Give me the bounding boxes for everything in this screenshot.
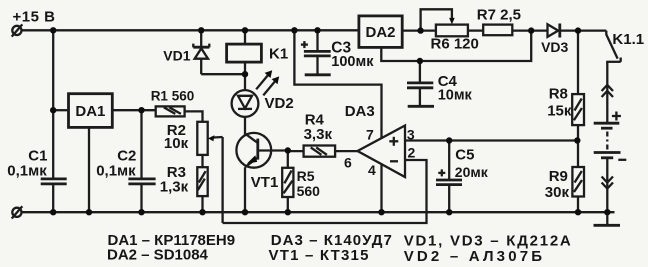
resistor R5 — [282, 151, 320, 213]
node ground terminal — [12, 206, 23, 218]
parts list text — [107, 232, 573, 265]
op-amp DA3 — [344, 103, 416, 178]
svg-text:30к: 30к — [545, 184, 570, 201]
wire DA3 pin2 feedback — [223, 160, 427, 223]
svg-text:DA1: DA1 — [75, 103, 105, 120]
svg-text:560: 560 — [297, 183, 321, 199]
resistor R4 — [288, 112, 358, 157]
diode VD1 — [163, 30, 209, 74]
svg-text:7: 7 — [366, 126, 374, 142]
capacitor C3 — [301, 30, 374, 75]
switch K1.1 — [606, 31, 644, 62]
wire left vertical with C1 — [52, 30, 54, 212]
svg-text:VT1 – КТ315: VT1 – КТ315 — [269, 247, 370, 264]
connector plug up — [602, 85, 613, 97]
svg-text:R6 120: R6 120 — [431, 36, 479, 53]
svg-text:VT1: VT1 — [251, 174, 279, 191]
wire R2 to R3 — [201, 155, 203, 167]
potentiometer R2 — [164, 122, 208, 155]
regulator DA2 — [359, 16, 402, 48]
wire R2 wiper to feedback — [208, 135, 223, 223]
wire DA1 ground pin — [88, 127, 90, 212]
svg-text:DA2 – SD1084: DA2 – SD1084 — [107, 247, 209, 264]
svg-text:4: 4 — [368, 162, 376, 178]
svg-text:VD1: VD1 — [163, 48, 190, 64]
svg-text:1,3к: 1,3к — [160, 179, 189, 196]
potentiometer R6 — [421, 9, 479, 52]
svg-text:R9: R9 — [549, 168, 568, 185]
svg-text:0,1мк: 0,1мк — [96, 163, 136, 180]
wire bottom rail — [22, 211, 615, 213]
wire DA3 pin4 to rail — [380, 164, 382, 212]
svg-text:20мк: 20мк — [455, 164, 489, 180]
wire DA3 V+ pin7 — [294, 30, 381, 138]
capacitor C4 — [407, 61, 473, 106]
wire VD1 to K1 junction — [201, 73, 245, 75]
svg-text:VD3: VD3 — [541, 39, 568, 55]
wire DA3 pin3 line — [405, 139, 577, 141]
ground chassis — [594, 212, 621, 225]
svg-text:K1: K1 — [269, 45, 288, 62]
wire battery to plug down — [606, 158, 608, 212]
wire DA1 right pin — [112, 109, 155, 111]
svg-text:VD2: VD2 — [265, 95, 294, 112]
svg-text:K1.1: K1.1 — [612, 31, 644, 48]
wire DA2 adj line — [381, 31, 531, 61]
wire C2 branch — [140, 110, 142, 212]
svg-text:10к: 10к — [164, 135, 189, 152]
node +15V terminal — [12, 8, 56, 36]
svg-text:VD1, VD3 – КД212А: VD1, VD3 – КД212А — [404, 232, 573, 249]
capacitor C1 — [7, 148, 66, 184]
svg-text:0,1мк: 0,1мк — [7, 163, 47, 180]
wire switch to battery — [606, 62, 608, 123]
wire VT1 emitter to rail — [244, 167, 246, 212]
regulator DA1 — [69, 94, 113, 128]
battery GB — [594, 112, 627, 160]
wire DA1 left pin — [53, 109, 68, 111]
resistor R3 — [160, 164, 208, 196]
svg-text:R1 560: R1 560 — [151, 88, 195, 103]
svg-text:R7 2,5: R7 2,5 — [477, 6, 521, 23]
svg-text:DA3: DA3 — [345, 103, 375, 120]
svg-text:100мк: 100мк — [331, 54, 374, 70]
resistor R7 — [477, 6, 521, 35]
connector plug down — [602, 177, 613, 189]
resistor R8 — [547, 31, 584, 141]
wire top rail — [22, 29, 607, 32]
capacitor C2 — [96, 148, 155, 184]
svg-text:15к: 15к — [547, 103, 572, 120]
capacitor C5 — [436, 141, 489, 213]
resistor R1 — [151, 88, 195, 116]
wire VD2 to VT1 collector — [244, 117, 246, 135]
svg-text:C5: C5 — [455, 146, 474, 163]
resistor R9 — [545, 141, 584, 213]
svg-text:10мк: 10мк — [438, 88, 473, 104]
svg-text:+15 В: +15 В — [13, 8, 56, 25]
svg-text:DA2: DA2 — [365, 24, 395, 41]
transistor VT1 — [236, 133, 278, 191]
wire R1 to R2 — [185, 111, 203, 121]
svg-text:6: 6 — [344, 155, 352, 171]
diode VD3 — [541, 24, 568, 56]
relay K1 — [227, 30, 289, 74]
wire VT1 base lead — [258, 149, 288, 151]
svg-text:R8: R8 — [549, 86, 568, 103]
svg-text:2: 2 — [408, 144, 416, 160]
wire R3 to rail — [201, 196, 203, 212]
svg-text:VD2 – АЛ307Б: VD2 – АЛ307Б — [404, 248, 546, 265]
svg-text:3,3к: 3,3к — [304, 126, 333, 143]
svg-text:R5: R5 — [297, 168, 315, 184]
LED VD2 — [232, 70, 294, 117]
